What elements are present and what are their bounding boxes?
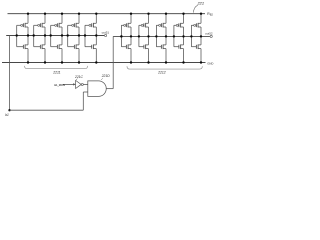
svg-text:GND: GND (207, 62, 213, 66)
svg-text:H1_MON: H1_MON (54, 83, 65, 87)
svg-text:221C: 221C (74, 75, 84, 79)
svg-text:b1: b1 (5, 113, 9, 117)
svg-text:out52: out52 (205, 32, 213, 36)
svg-text:2212: 2212 (157, 70, 166, 74)
svg-text:B2: B2 (210, 14, 214, 17)
svg-text:221: 221 (197, 1, 205, 6)
svg-text:2211: 2211 (52, 71, 60, 75)
svg-text:221D: 221D (101, 74, 111, 78)
svg-text:out51: out51 (102, 30, 110, 34)
